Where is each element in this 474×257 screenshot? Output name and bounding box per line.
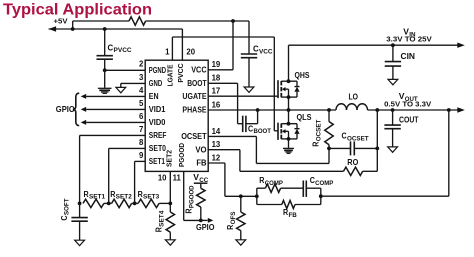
- svg-text:COMP: COMP: [315, 180, 333, 187]
- svg-text:VID1: VID1: [149, 105, 166, 114]
- transistor QHS: [278, 71, 310, 99]
- capacitor CCOMP: [303, 176, 333, 197]
- svg-text:SET4: SET4: [158, 210, 165, 227]
- svg-text:SET1: SET1: [149, 157, 166, 166]
- svg-text:OFS: OFS: [230, 212, 237, 225]
- wire QLS drain to phase: [288, 110, 290, 124]
- wire VOUT rail: [368, 108, 458, 112]
- pin 16 number: [212, 100, 221, 109]
- wire pin4 to GPIO: [81, 94, 146, 99]
- inductor LO: [336, 92, 368, 110]
- ground arrow pin3: [116, 87, 126, 92]
- pin 11 name PGOOD rotated: [177, 143, 186, 168]
- wire BOOT pin18: [208, 83, 243, 123]
- capacitor CIN: [385, 45, 415, 79]
- wire PHASE: [208, 108, 336, 112]
- wire comp upper branch: [257, 188, 266, 196]
- node +5V label: [54, 17, 68, 26]
- svg-text:VCC: VCC: [191, 65, 207, 74]
- svg-text:PGND: PGND: [149, 66, 166, 75]
- wire QHS drain to VIN: [288, 45, 290, 81]
- svg-text:9: 9: [139, 151, 144, 160]
- svg-text:18: 18: [212, 74, 221, 83]
- pin 8 number: [139, 138, 144, 147]
- resistor RSET3: [138, 190, 160, 208]
- pin 18 number: [212, 74, 221, 83]
- wire VIN rail: [289, 43, 458, 47]
- resistor RSET2: [110, 190, 132, 208]
- svg-text:OCSET: OCSET: [347, 136, 369, 143]
- wire LGATE pin1 to QLS gate: [172, 37, 278, 131]
- node VIN arrow: [457, 43, 465, 48]
- ground earth below CPVCC: [98, 70, 112, 93]
- capacitor COUT: [384, 110, 418, 147]
- svg-text:LGATE: LGATE: [165, 65, 174, 87]
- svg-text:SET3: SET3: [143, 194, 160, 201]
- svg-text:SET2: SET2: [165, 150, 174, 167]
- wire OCSET pin14: [208, 136, 329, 163]
- svg-text:FB: FB: [196, 159, 207, 168]
- resistor RSET1: [83, 190, 106, 208]
- capacitor COCSET: [327, 132, 379, 156]
- pin 17 number: [212, 87, 221, 96]
- svg-text:19: 19: [212, 60, 221, 69]
- svg-text:EN: EN: [149, 92, 159, 101]
- pin 19 name VCC: [191, 65, 207, 74]
- node VOUT label: [399, 91, 418, 103]
- svg-text:7: 7: [139, 125, 143, 134]
- svg-text:UGATE: UGATE: [182, 92, 206, 101]
- pin 12 number: [212, 153, 221, 162]
- resistor RCOMP: [259, 176, 303, 192]
- node VCC supply RPGOOD: [193, 172, 209, 188]
- svg-text:PVCC: PVCC: [176, 63, 185, 83]
- svg-text:QLS: QLS: [297, 113, 312, 122]
- node junction SET1: [132, 202, 139, 206]
- title Typical Application: [3, 1, 152, 18]
- svg-text:SET1: SET1: [89, 194, 106, 201]
- node VOUT arrow: [457, 107, 465, 112]
- wire comp lower branch: [257, 196, 282, 204]
- svg-text:0.5V TO 3.3V: 0.5V TO 3.3V: [384, 100, 432, 109]
- pin 20 number: [186, 48, 195, 57]
- node GPIO label left: [56, 105, 76, 114]
- svg-text:6: 6: [139, 112, 144, 121]
- ground arrow below COUT: [388, 147, 398, 152]
- pin 9 number: [139, 151, 144, 160]
- svg-text:11: 11: [173, 174, 182, 183]
- svg-text:GPIO: GPIO: [196, 223, 215, 232]
- ground arrow below RSET4: [165, 240, 175, 245]
- svg-text:C: C: [253, 44, 259, 54]
- pin 16 name PHASE: [182, 106, 206, 115]
- svg-text:2: 2: [139, 60, 144, 69]
- pin 3 number: [139, 73, 144, 82]
- pin 14 name OCSET: [181, 132, 207, 141]
- pin 8 name SET0: [149, 144, 167, 153]
- svg-text:QHS: QHS: [295, 71, 310, 80]
- pin 4 name EN: [149, 92, 159, 101]
- svg-text:10: 10: [158, 174, 167, 183]
- resistor RPGOOD: [185, 185, 205, 220]
- wire +5V rail: [49, 29, 183, 60]
- svg-text:VO: VO: [195, 145, 206, 154]
- wire CBOOT to phase: [246, 108, 260, 124]
- wire chain to RSET4: [159, 202, 172, 206]
- svg-text:BOOT: BOOT: [253, 128, 271, 135]
- wire CPVCC to PGND pin2: [103, 68, 145, 72]
- pin 7 number: [139, 125, 143, 134]
- node +5V arrow: [49, 26, 57, 31]
- wire top rail left: [73, 20, 129, 22]
- transistor QLS: [278, 113, 312, 141]
- ground arrow below ROFS: [236, 240, 246, 245]
- svg-text:OCSET: OCSET: [315, 119, 322, 141]
- svg-text:GPIO: GPIO: [56, 105, 76, 114]
- svg-text:4: 4: [139, 86, 144, 95]
- wire pin5 to GPIO: [81, 107, 146, 112]
- resistor RSET4: [154, 203, 174, 239]
- svg-text:COUT: COUT: [399, 115, 419, 124]
- svg-text:PGOOD: PGOOD: [188, 185, 195, 208]
- svg-text:8: 8: [139, 138, 144, 147]
- svg-text:SREF: SREF: [149, 131, 167, 140]
- pin 10 number: [158, 174, 167, 183]
- svg-text:RO: RO: [347, 158, 359, 167]
- wire pin3 GND: [121, 83, 145, 87]
- GPIO brace: [73, 93, 79, 125]
- svg-text:PGOOD: PGOOD: [177, 143, 186, 168]
- ground arrow below CSOFT: [75, 240, 85, 245]
- wire pin11 PGOOD: [184, 171, 203, 222]
- svg-text:12: 12: [212, 153, 221, 162]
- wire comp to VOUT: [321, 110, 449, 196]
- svg-text:VID0: VID0: [149, 118, 166, 127]
- wire VOUT drop: [376, 110, 378, 171]
- pin 6 name VID0: [149, 118, 166, 127]
- pin 12 name FB: [196, 159, 207, 168]
- pin 1 name LGATE rotated: [165, 65, 174, 87]
- wire pin8 SET0 down: [109, 148, 146, 203]
- wire top rail right: [146, 19, 249, 23]
- pin 6 number: [139, 112, 144, 121]
- svg-text:3.3V TO 25V: 3.3V TO 25V: [386, 35, 432, 44]
- pin 18 name BOOT: [187, 79, 207, 88]
- node GPIO arrow right: [201, 218, 214, 223]
- pin 20 name PVCC rotated: [176, 63, 185, 83]
- svg-text:17: 17: [212, 87, 221, 96]
- pin 17 name UGATE: [182, 92, 206, 101]
- resistor (unlabeled) top rail: [129, 17, 146, 25]
- svg-text:LO: LO: [349, 92, 359, 101]
- pin 10 name SET2 rotated: [165, 150, 174, 167]
- ground arrow below CIN: [388, 79, 398, 84]
- resistor RO: [344, 158, 378, 176]
- svg-text:GND: GND: [149, 79, 163, 88]
- pin 3 name GND: [149, 79, 163, 88]
- pin 13 name VO: [195, 145, 206, 154]
- capacitor CBOOT: [243, 116, 271, 136]
- pin 7 name SREF: [149, 131, 167, 140]
- svg-text:C: C: [108, 42, 114, 52]
- node VIN label: [403, 26, 416, 38]
- pin 13 number: [212, 140, 221, 149]
- svg-text:BOOT: BOOT: [187, 79, 207, 88]
- resistor RFB: [282, 194, 323, 219]
- svg-text:3: 3: [139, 73, 144, 82]
- svg-text:5: 5: [139, 99, 144, 108]
- wire VO pin13: [208, 150, 343, 172]
- node junction SET0: [104, 202, 112, 206]
- svg-text:14: 14: [212, 127, 221, 136]
- svg-text:16: 16: [212, 100, 221, 109]
- pin 1 number: [165, 47, 170, 56]
- wire pin9 SET1 down: [135, 161, 146, 203]
- pin 9 name SET1: [149, 157, 166, 166]
- node junction SREF/CSOFT: [78, 202, 82, 206]
- resistor ROCSET: [311, 110, 333, 148]
- pin 2 name PGND: [149, 66, 166, 75]
- svg-text:+5V: +5V: [54, 17, 68, 26]
- wire pin6 to GPIO: [81, 120, 146, 125]
- node VIN range label: [386, 35, 432, 44]
- pin 14 number: [212, 127, 221, 136]
- svg-text:VCC: VCC: [259, 48, 273, 55]
- resistor ROFS: [226, 196, 245, 239]
- ground arrow below CVCC: [244, 87, 254, 92]
- wire VCC drop to pin19: [208, 21, 233, 70]
- op-amp U1 IC body: [145, 60, 208, 171]
- pin 4 number: [139, 86, 144, 95]
- svg-text:CIN: CIN: [401, 52, 416, 61]
- wire FB pin12: [208, 163, 258, 198]
- node GPIO label bottom: [196, 223, 215, 232]
- wire QHS source to phase: [288, 97, 290, 110]
- wire pin7 SREF down: [80, 135, 146, 203]
- svg-text:20: 20: [186, 48, 195, 57]
- ground earth below QLS: [283, 148, 294, 153]
- svg-text:SOFT: SOFT: [64, 198, 71, 215]
- capacitor CPVCC: [97, 27, 133, 70]
- capacitor CSOFT: [60, 198, 88, 240]
- wire pin10 stub: [169, 171, 171, 203]
- pin 19 number: [212, 60, 221, 69]
- svg-text:COMP: COMP: [265, 180, 283, 187]
- svg-text:1: 1: [165, 47, 170, 56]
- wire UGATE pin17: [208, 95, 278, 97]
- pin 5 name VID1: [149, 105, 166, 114]
- svg-text:Typical Application: Typical Application: [3, 1, 152, 18]
- svg-text:PHASE: PHASE: [182, 106, 206, 115]
- svg-text:OCSET: OCSET: [181, 132, 207, 141]
- svg-text:13: 13: [212, 140, 221, 149]
- pin 2 number: [139, 60, 144, 69]
- svg-text:FB: FB: [288, 212, 297, 219]
- wire QLS source to ground: [288, 139, 290, 148]
- wire junction +5V/top-rail: [71, 21, 75, 31]
- pin 5 number: [139, 99, 144, 108]
- pin 11 number: [173, 174, 182, 183]
- svg-text:SET2: SET2: [116, 194, 133, 201]
- node VOUT range label: [384, 100, 432, 109]
- capacitor CVCC: [241, 21, 273, 87]
- svg-text:PVCC: PVCC: [113, 47, 132, 54]
